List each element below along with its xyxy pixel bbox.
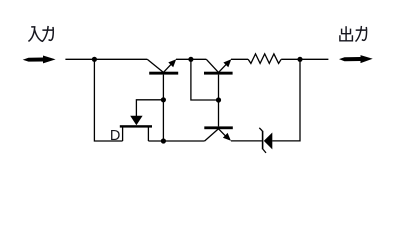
label 入力 (input) [28,26,53,42]
zener diode ZD [259,128,272,153]
svg-text:D: D [110,128,120,144]
node J2 junction [188,57,193,62]
wire input to Q1 collector [65,58,147,60]
wire right rail J3 down to zener anode [272,59,300,141]
input arrow [23,56,56,64]
wire J2 down to Q2 base node [191,59,219,100]
resistor R1 [248,54,281,64]
wire resistor to output [281,58,328,60]
wire Q2 base lead down to Q3 base [218,75,220,127]
label 出力 (output) [340,26,367,42]
node J4 junction [161,97,166,102]
diode D [120,100,164,141]
wire Q3 emitter to zener cathode [231,140,262,142]
node J5 junction [216,97,221,102]
wire left rail from J1 down and right to diode D [94,59,122,141]
wire Q1 base lead down to bottom rail [162,75,164,141]
node J3 junction [297,57,302,62]
node J6 junction [161,138,166,143]
wire bottom rail diode D to Q3 collector [148,140,204,142]
transistor Q1 [147,59,178,74]
transistor Q3 [204,126,233,141]
transistor Q2 [204,59,233,74]
wire Q2 emitter to resistor [231,58,248,60]
node J1 junction [92,57,97,62]
wire Q1 emitter to Q2 collector [176,58,206,60]
output arrow [339,55,373,63]
